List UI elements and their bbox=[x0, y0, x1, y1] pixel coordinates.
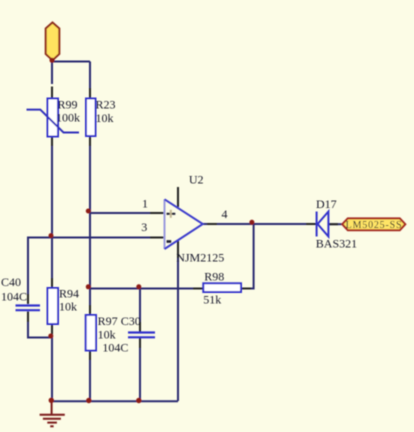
svg-text:U2: U2 bbox=[189, 173, 204, 187]
svg-text:C40: C40 bbox=[1, 275, 21, 289]
svg-text:LM5025-SS: LM5025-SS bbox=[346, 220, 403, 231]
svg-text:C30: C30 bbox=[121, 314, 141, 328]
svg-text:BAS321: BAS321 bbox=[316, 237, 357, 251]
svg-text:R98: R98 bbox=[204, 269, 224, 283]
svg-text:100k: 100k bbox=[56, 111, 80, 125]
svg-text:R99: R99 bbox=[58, 98, 78, 112]
svg-text:R94: R94 bbox=[59, 286, 79, 300]
svg-text:R97: R97 bbox=[98, 314, 118, 328]
svg-text:10k: 10k bbox=[96, 111, 114, 125]
svg-text:10k: 10k bbox=[98, 327, 116, 341]
svg-text:R23: R23 bbox=[96, 98, 116, 112]
svg-text:10k: 10k bbox=[59, 299, 77, 313]
svg-text:104C: 104C bbox=[1, 290, 27, 304]
svg-text:NJM2125: NJM2125 bbox=[176, 250, 224, 264]
svg-text:51k: 51k bbox=[203, 293, 221, 307]
svg-text:104C: 104C bbox=[102, 340, 128, 354]
svg-text:4: 4 bbox=[222, 207, 228, 221]
svg-text:D17: D17 bbox=[316, 197, 337, 211]
svg-text:1: 1 bbox=[142, 197, 148, 211]
svg-text:3: 3 bbox=[141, 220, 147, 234]
